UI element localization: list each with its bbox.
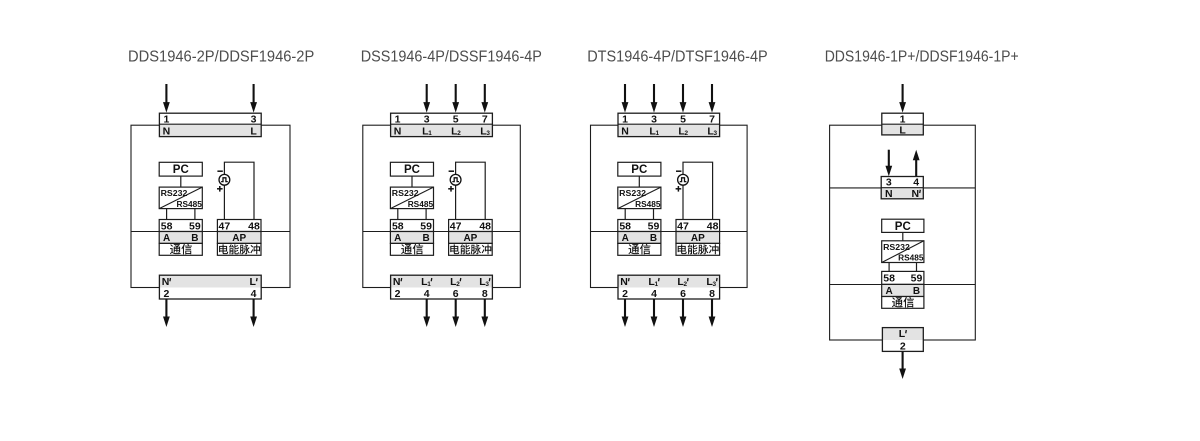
terminal block 47/48 AP energy-pulse D3 [676,220,720,256]
wire load-out arrow D3 #3 [680,299,687,327]
svg-text:RS232: RS232 [883,242,910,252]
svg-text:2: 2 [622,288,628,300]
wire PC to RS interface D2 [411,176,413,187]
wire supply-in arrow D4 [899,84,906,113]
svg-text:4: 4 [913,177,919,189]
terminal strip bottom D2 [391,275,493,300]
svg-text:5: 5 [453,113,459,125]
wire load-out arrow D3 #1 [622,299,629,327]
svg-text:L: L [899,125,906,137]
svg-text:58: 58 [883,273,895,285]
RS232/RS485 interface D2 [390,187,433,209]
wire PC to RS interface D4 [902,232,904,240]
terminal block 47/48 AP energy-pulse D2 [449,220,493,256]
svg-text:1: 1 [163,113,169,125]
svg-text:PC: PC [895,221,911,233]
wire load-out arrow D1 #2 [250,299,257,327]
PC box D4 [882,219,924,233]
svg-text:DTS1946-4P/DTSF1946-4P: DTS1946-4P/DTSF1946-4P [587,49,768,66]
svg-text:AP: AP [232,233,246,244]
svg-text:PC: PC [404,164,420,176]
terminal strip top D3 [618,113,720,137]
wire load-out arrow D2 #1 [423,299,430,327]
PC box D3 [618,162,661,176]
svg-text:N: N [912,188,920,200]
svg-text:59: 59 [189,220,201,232]
terminal block 47/48 AP energy-pulse D1 [217,220,261,256]
svg-text:RS485: RS485 [898,253,924,263]
svg-text:47: 47 [677,220,689,232]
terminal strip bottom L'/2 D4 [882,328,923,353]
svg-text:DDS1946-2P/DDSF1946-2P: DDS1946-2P/DDSF1946-2P [128,49,314,66]
svg-text:L: L [899,328,906,340]
svg-text:4: 4 [424,288,430,300]
RS232/RS485 interface D4 [882,241,924,263]
wire RS interface to terminal 59 D3 [653,209,655,220]
svg-text:59: 59 [420,220,432,232]
svg-text:PC: PC [631,164,647,176]
wire load-out arrow D4 [899,351,906,379]
svg-text:6: 6 [453,288,459,300]
wire load-out arrow D3 #4 [709,299,716,327]
wire supply-in arrow D2 #1 [423,84,430,113]
svg-text:7: 7 [709,113,715,125]
wire supply-in arrow D1 #1 [163,84,170,113]
terminal block 58/59 A/B communication D1 [159,220,202,256]
svg-text:A: A [163,233,170,244]
RS232/RS485 interface D3 [618,187,661,209]
wire PC to RS interface D1 [180,176,182,187]
svg-text:A: A [394,233,401,244]
svg-text:L: L [250,276,257,288]
wire load-out arrow D3 #2 [651,299,658,327]
svg-text:3: 3 [251,113,257,125]
svg-text:DDS1946-1P+/DDSF1946-1P+: DDS1946-1P+/DDSF1946-1P+ [825,49,1019,66]
wire supply-in arrow D3 #2 [651,84,658,113]
svg-text:3: 3 [424,113,430,125]
svg-text:B: B [913,286,920,297]
meter case outline D2 [363,125,521,287]
wire load-out arrow D2 #3 [481,299,488,327]
svg-text:2: 2 [395,288,401,300]
svg-text:47: 47 [219,220,231,232]
wire RS interface to terminal 59 D4 [916,263,918,272]
svg-text:2: 2 [163,288,169,300]
svg-text:1: 1 [622,113,628,125]
svg-text:47: 47 [450,220,462,232]
terminal strip bottom D1 [159,275,261,300]
pulse output device D2 [448,162,485,219]
svg-text:59: 59 [648,220,660,232]
svg-text:N: N [394,125,402,137]
svg-text:58: 58 [161,220,173,232]
svg-text:N: N [163,125,171,137]
svg-text:RS232: RS232 [392,188,419,198]
svg-text:48: 48 [479,220,491,232]
svg-text:RS485: RS485 [635,199,661,209]
svg-text:3: 3 [651,113,657,125]
svg-text:A: A [885,286,892,297]
terminal block 58/59 A/B communication D2 [390,220,433,256]
svg-text:B: B [650,233,657,244]
svg-text:PC: PC [173,164,189,176]
svg-text:8: 8 [709,288,715,300]
svg-text:1: 1 [395,113,401,125]
wire supply-in arrow D3 #1 [622,84,629,113]
RS232/RS485 interface D1 [159,187,202,209]
svg-text:DSS1946-4P/DSSF1946-4P: DSS1946-4P/DSSF1946-4P [361,49,542,66]
svg-text:7: 7 [482,113,488,125]
svg-text:RS485: RS485 [408,199,434,209]
pulse output device D1 [217,162,254,219]
wire RS interface to terminal 58 D2 [397,209,399,220]
svg-text:RS232: RS232 [619,188,646,198]
svg-text:48: 48 [248,220,260,232]
svg-text:58: 58 [619,220,631,232]
svg-text:L: L [250,125,257,137]
svg-text:N: N [162,276,170,288]
svg-text:A: A [622,233,629,244]
wire RS interface to terminal 59 D1 [194,209,196,220]
wire supply-in arrow D2 #2 [452,84,459,113]
wire RS interface to terminal 59 D2 [425,209,427,220]
svg-text:4: 4 [251,288,257,300]
terminal block 3/4 N/N' D4 [881,177,923,201]
wire line-out arrow from terminal 4 D4 [913,150,920,177]
svg-text:58: 58 [392,220,404,232]
wire supply-in arrow D1 #2 [250,84,257,113]
wire PC to RS interface D3 [638,176,640,187]
wire load-out arrow D1 #1 [163,299,170,327]
meter case outline D1 [131,125,290,287]
svg-text:48: 48 [707,220,719,232]
svg-text:8: 8 [482,288,488,300]
wire line-in arrow to terminal 3 D4 [885,150,892,177]
wire RS interface to terminal 58 D3 [624,209,626,220]
PC box D2 [390,162,433,176]
terminal strip top 1/L D4 [882,113,924,136]
terminal block 58/59 A/B communication D4 [882,271,924,308]
terminal strip top D2 [391,113,493,137]
svg-text:4: 4 [651,288,657,300]
svg-text:6: 6 [680,288,686,300]
terminal strip bottom D3 [618,275,720,300]
svg-text:AP: AP [463,233,477,244]
wire supply-in arrow D2 #3 [481,84,488,113]
svg-text:AP: AP [691,233,705,244]
svg-text:5: 5 [680,113,686,125]
svg-text:N: N [393,276,401,288]
pulse output device D3 [676,162,713,219]
svg-text:N: N [621,125,629,137]
wire supply-in arrow D3 #3 [680,84,687,113]
terminal block 58/59 A/B communication D3 [618,220,661,256]
wire load-out arrow D2 #2 [452,299,459,327]
wire supply-in arrow D3 #4 [709,84,716,113]
svg-text:59: 59 [911,273,923,285]
meter case outline D4 [830,125,976,340]
terminal strip top D1 [159,113,261,137]
svg-text:3: 3 [886,177,892,189]
PC box D1 [159,162,202,176]
wire RS interface to terminal 58 D4 [888,263,890,272]
svg-text:N: N [620,276,628,288]
svg-text:2: 2 [900,340,906,352]
svg-text:1: 1 [900,113,906,125]
wire RS interface to terminal 58 D1 [166,209,168,220]
svg-text:RS232: RS232 [161,188,188,198]
svg-text:RS485: RS485 [177,199,203,209]
svg-text:B: B [191,233,198,244]
svg-text:N: N [885,188,893,200]
meter case outline D3 [591,125,748,287]
svg-text:B: B [422,233,429,244]
